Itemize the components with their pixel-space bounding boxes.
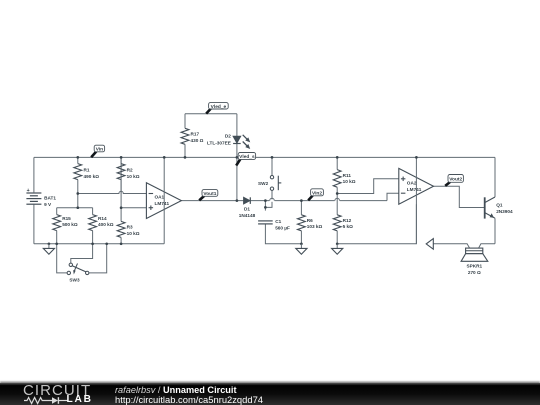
resistor R17 bbox=[181, 114, 204, 158]
svg-text:Vled_e: Vled_e bbox=[211, 104, 227, 110]
wire D2 branch down to output row bbox=[236, 114, 238, 201]
node label flag Vout2 bbox=[445, 175, 463, 186]
ground under R6 bbox=[296, 242, 307, 254]
footer circuit title bbox=[115, 385, 237, 395]
svg-text:Q1: Q1 bbox=[496, 202, 503, 207]
svg-text:Vin: Vin bbox=[96, 147, 103, 153]
footer url bbox=[115, 394, 263, 405]
svg-text:OA1: OA1 bbox=[155, 195, 165, 200]
wire R12 ground link to OA2 V- bbox=[337, 204, 416, 244]
resistor R12 bbox=[333, 194, 353, 244]
svg-text:560 µF: 560 µF bbox=[275, 226, 290, 231]
wire R15-R14 top link bbox=[57, 207, 93, 209]
op-amp OA1 LM741 bbox=[146, 157, 181, 243]
wire top power rail bbox=[34, 156, 495, 158]
svg-text:270 Ω: 270 Ω bbox=[468, 270, 481, 275]
wire row riser to OA2 inverting input bbox=[387, 193, 399, 200]
svg-text:SPKR1: SPKR1 bbox=[466, 264, 482, 269]
wire battery top lead bbox=[33, 157, 35, 192]
svg-text:R2: R2 bbox=[127, 168, 133, 173]
resistor R2 bbox=[117, 157, 140, 193]
wire SW2 bottom jog bbox=[265, 190, 272, 207]
op-amp OA2 LM741 bbox=[399, 157, 434, 243]
wire OA1 inverting input (hop over R2 net) bbox=[78, 191, 147, 193]
resistor R3 bbox=[117, 208, 140, 244]
capacitor C1 560uF bbox=[258, 219, 290, 231]
wire R1 bottom to link bbox=[77, 194, 79, 208]
svg-text:LM741: LM741 bbox=[155, 201, 170, 206]
svg-text:D2: D2 bbox=[225, 133, 231, 138]
wire R2-R3 net bbox=[120, 157, 122, 207]
svg-text:500 kΩ: 500 kΩ bbox=[62, 222, 78, 227]
transistor Q1 2N3904 bbox=[485, 197, 513, 219]
svg-text:OA2: OA2 bbox=[407, 180, 417, 185]
wire C1 bottom to ground link bbox=[265, 224, 301, 244]
resistor R11 bbox=[333, 157, 355, 193]
wire battery bottom lead bbox=[33, 205, 35, 244]
svg-text:R11: R11 bbox=[343, 173, 352, 178]
wire Q1 emitter down bbox=[494, 218, 496, 244]
svg-text:2N3904: 2N3904 bbox=[496, 209, 513, 214]
svg-text:D1: D1 bbox=[244, 207, 250, 212]
node label flag Vout1 bbox=[199, 190, 218, 201]
svg-text:Vout2: Vout2 bbox=[449, 177, 462, 183]
svg-text:R14: R14 bbox=[98, 216, 107, 221]
junction dots top rail bbox=[76, 156, 417, 159]
resistor R14 bbox=[89, 208, 114, 244]
node label flag Vled_s bbox=[236, 153, 255, 166]
junction dots bottom rail bbox=[55, 242, 122, 245]
diode D1 1N4148 bbox=[239, 197, 256, 218]
resistor R1 bbox=[74, 157, 99, 193]
wire LED loop top bbox=[185, 113, 237, 115]
node label flag Vin bbox=[91, 145, 104, 157]
svg-text:1N4148: 1N4148 bbox=[239, 213, 256, 218]
ground at battery bbox=[43, 242, 54, 254]
svg-text:C1: C1 bbox=[275, 219, 281, 224]
wire D1 to OA2 row bbox=[250, 200, 387, 202]
junction dots middle nodes bbox=[76, 192, 338, 209]
switch SW3 bbox=[57, 244, 107, 283]
resistor R6 bbox=[298, 201, 323, 244]
svg-text:490 kΩ: 490 kΩ bbox=[84, 174, 100, 179]
wire OA1 non-inverting input bbox=[121, 207, 146, 209]
svg-text:Vled_s: Vled_s bbox=[239, 154, 255, 160]
svg-text:10 kΩ: 10 kΩ bbox=[127, 231, 140, 236]
node label flag Vin2 bbox=[308, 189, 323, 201]
wire speaker to ground arrow bbox=[433, 244, 469, 248]
svg-text:Vin2: Vin2 bbox=[312, 190, 322, 196]
wire hop of row over SW2 lead bbox=[269, 198, 274, 201]
CircuitLab logo resistor+diode glyph bbox=[24, 396, 70, 405]
ground (rotated) at speaker return bbox=[426, 239, 433, 250]
wire OA2 output to Q1 base bbox=[434, 186, 485, 207]
svg-text:10 kΩ: 10 kΩ bbox=[343, 179, 356, 184]
wire OA1 output row bbox=[181, 200, 243, 202]
svg-text:+: + bbox=[27, 188, 30, 194]
CircuitLab logo LAB bbox=[67, 394, 93, 405]
wire Q1 collector up to rail bbox=[494, 157, 496, 197]
LED D2 LTL-307EE bbox=[207, 133, 250, 148]
node label flag Vled_e bbox=[206, 103, 228, 114]
svg-text:R12: R12 bbox=[343, 218, 352, 223]
svg-text:R3: R3 bbox=[127, 225, 133, 230]
wire OA2 non-inverting step from R11/R12 node bbox=[337, 179, 399, 194]
battery BAT1 9V bbox=[26, 188, 56, 207]
svg-text:R1: R1 bbox=[84, 168, 90, 173]
wire emitter to speaker bbox=[479, 244, 495, 248]
svg-text:5 kΩ: 5 kΩ bbox=[343, 224, 354, 229]
svg-text:SW3: SW3 bbox=[69, 278, 80, 283]
CircuitLab logo wordmark CIRCUIT bbox=[23, 382, 91, 399]
svg-text:SW2: SW2 bbox=[258, 181, 269, 186]
svg-text:LTL-307EE: LTL-307EE bbox=[207, 140, 231, 145]
svg-text:400 kΩ: 400 kΩ bbox=[98, 222, 114, 227]
wire bottom rail left bbox=[34, 243, 164, 245]
svg-text:10 kΩ: 10 kΩ bbox=[127, 174, 140, 179]
svg-text:Vout1: Vout1 bbox=[203, 191, 216, 197]
svg-text:430 Ω: 430 Ω bbox=[191, 138, 204, 143]
svg-text:9 V: 9 V bbox=[44, 202, 52, 207]
resistor R15 bbox=[53, 208, 78, 244]
svg-text:R6: R6 bbox=[307, 218, 313, 223]
svg-text:R17: R17 bbox=[191, 132, 200, 137]
svg-text:103 kΩ: 103 kΩ bbox=[307, 224, 323, 229]
switch SW2 bbox=[258, 157, 281, 190]
wire hop over R11-R12 net bbox=[335, 198, 340, 201]
svg-text:LM741: LM741 bbox=[407, 187, 422, 192]
wire C1 tap bbox=[264, 201, 266, 211]
svg-text:BAT1: BAT1 bbox=[44, 195, 56, 200]
svg-text:R15: R15 bbox=[62, 216, 71, 221]
speaker SPKR1 270 Ohm bbox=[461, 248, 488, 275]
ground under R12 bbox=[332, 242, 343, 254]
